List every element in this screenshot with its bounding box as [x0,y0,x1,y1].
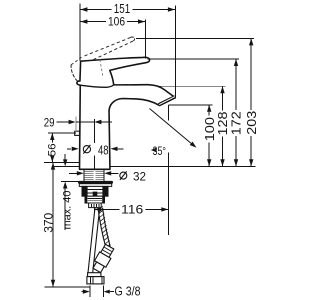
aerator [158,95,176,106]
extension line 151 right (spout tip) [174,6,176,98]
tick x94.2 (tailpiece centre) [93,204,95,215]
35deg label arrow [151,148,157,153]
dim 128 [220,86,224,93]
dim 116 [94,207,101,211]
dim dia 32 [69,172,77,174]
hose braid hatching [98,206,103,210]
mounting nut [85,196,105,203]
grey extension line handle tip (29 datum) [75,117,77,132]
ext line y162.3 [44,161,80,163]
ext line y104.8 (100 level, aerator) [168,104,212,106]
raised lever dashed top edge [85,37,131,56]
dim 203 [249,38,253,45]
dim 100 [207,105,211,112]
raised lever dashed beak front [71,65,78,81]
dim dia 48 [67,148,71,150]
svg-text:116: 116 [121,205,143,217]
threaded shank dia32 [83,169,85,181]
dim G 3/8 [89,286,91,298]
ext line y286.8 (hose nut bottom) [45,286,90,288]
hose left collar [88,273,101,277]
raised lever dashed tip [131,37,135,41]
supply hose left [88,208,95,273]
svg-text:370: 370 [44,213,56,233]
faucet outline [77,57,175,169]
svg-text:32: 32 [133,169,146,183]
ext line x168.3 vertical (aerator center) [167,105,169,121]
tab on body front [75,131,80,135]
dim 56 [50,133,54,140]
svg-text:48: 48 [98,142,109,157]
hose coupler [89,203,102,208]
ext line y181.5 (escutcheon top) [61,181,79,183]
supply hose right (braided) [98,208,106,246]
raised lever dashed bottom edge [93,41,133,60]
35deg jet direction line [150,109,193,145]
ext line y86.2 (128 level, spout top) [158,85,226,87]
raised lever dashed beak top [71,57,82,65]
dim 370 [51,163,55,170]
svg-text:29: 29 [44,116,55,130]
svg-text:max. 40: max. 40 [61,191,73,230]
svg-text:56: 56 [47,143,59,156]
dim 172 [234,59,238,66]
body centerline [94,119,96,143]
mounting flange [82,186,108,196]
handle beak bottom groove [80,85,114,88]
countertop line left segment [52,165,80,167]
dim max. 40 [64,154,66,160]
svg-text:35°: 35° [153,144,167,158]
escutcheon plate [78,181,113,184]
ext line y38.4 (203 level, raised lever tip) [136,37,254,39]
svg-text:203: 203 [244,111,259,135]
countertop line right segment [110,165,256,167]
hose right fittings [91,244,116,274]
svg-text:G 3/8: G 3/8 [115,285,141,299]
dim 151 [80,9,111,11]
raised lever hidden edge [100,60,103,78]
dim 106 [80,21,106,23]
left extension line (151/106 datum) [79,4,81,62]
ext line y133 (tab level) [48,132,76,134]
svg-text:172: 172 [229,111,244,135]
ext line y59 (172 level, handle top) [148,58,240,60]
hose left nut G3/8 [87,277,104,284]
extension line 106 right [144,20,146,59]
svg-text:106: 106 [108,15,125,29]
